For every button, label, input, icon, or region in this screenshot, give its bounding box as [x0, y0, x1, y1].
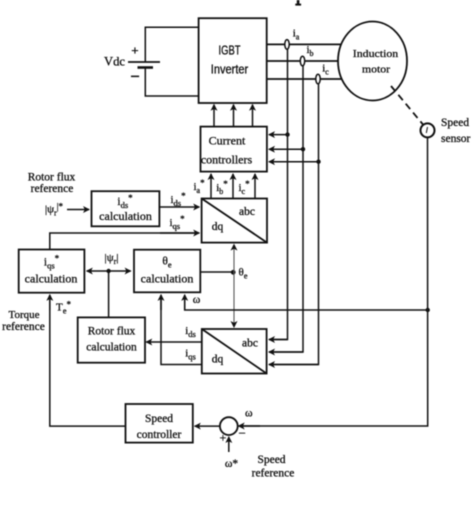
- wire ib to current controllers: [269, 148, 303, 150]
- wire ic feedback vertical: [269, 84, 319, 365]
- summing junction: [220, 417, 246, 444]
- wire theta-e output: [200, 271, 234, 273]
- wire theta-e up to dq-abc: [233, 245, 235, 272]
- wire omega* to summing junction: [228, 437, 230, 452]
- block current controllers: [201, 127, 267, 172]
- node psi-r junction: [106, 269, 110, 273]
- wire torque reference Te* to iqs* calculation: [50, 295, 126, 426]
- svg-text:calculation: calculation: [25, 272, 78, 286]
- wire ic to current controllers: [269, 161, 319, 163]
- svg-text:motor: motor: [362, 64, 390, 76]
- svg-text:controllers: controllers: [201, 153, 253, 167]
- svg-text:Rotor flux: Rotor flux: [88, 326, 136, 338]
- current sensor phase b: [300, 56, 304, 66]
- svg-text:reference: reference: [2, 321, 45, 333]
- svg-text:Speed: Speed: [441, 117, 469, 129]
- wire psi-r from rotor flux calculation: [108, 271, 110, 317]
- svg-text:Rotor flux: Rotor flux: [28, 172, 76, 184]
- wire omega feedback horizontal: [185, 296, 428, 310]
- svg-text:+: +: [220, 431, 227, 445]
- svg-text:calculation: calculation: [99, 209, 152, 223]
- block dq to abc transform upper: [202, 199, 267, 243]
- battery Vdc negative plate: [138, 66, 154, 69]
- svg-text:controller: controller: [137, 429, 182, 441]
- wire ic* reference to controllers: [254, 174, 256, 199]
- svg-text:dq: dq: [212, 221, 224, 233]
- svg-text:ω: ω: [193, 294, 201, 306]
- block IGBT inverter: [199, 18, 267, 103]
- svg-text:Inverter: Inverter: [211, 63, 249, 77]
- wire battery positive to inverter: [145, 27, 198, 61]
- wire ids to rotor flux calculation: [146, 341, 202, 343]
- node theta-e junction: [231, 270, 236, 275]
- svg-text:reference: reference: [252, 468, 295, 480]
- shaft dashed link motor to speed sensor: [391, 86, 423, 125]
- speed sensor: [421, 123, 435, 137]
- current sensor phase a: [285, 40, 289, 50]
- wire gate signal 1 controllers to inverter: [213, 105, 215, 127]
- svg-text:ω*: ω*: [225, 458, 239, 470]
- node junction ib to controllers: [301, 147, 305, 151]
- svg-text:Speed: Speed: [257, 454, 285, 466]
- svg-text:|ψr|: |ψr|: [105, 252, 119, 266]
- svg-text:Vdc: Vdc: [104, 54, 125, 69]
- wire ids* to dq-abc: [159, 206, 199, 208]
- svg-text:−: −: [239, 426, 246, 441]
- wire psi-r ref to ids calculation: [67, 209, 89, 211]
- svg-text:sensor: sensor: [441, 133, 471, 145]
- wire iqs to theta-e calculation: [161, 296, 202, 365]
- svg-text:Induction: Induction: [353, 48, 399, 60]
- wire theta-e down to abc-dq: [233, 272, 235, 327]
- wire speed sensor to summing junction: [240, 138, 428, 427]
- wire phase c inverter to motor: [267, 78, 342, 80]
- wire ib* reference to controllers: [232, 174, 234, 199]
- wire ia* reference to controllers: [210, 174, 212, 199]
- node junction ic to controllers: [316, 160, 320, 164]
- induction motor M: [338, 22, 407, 101]
- block ids* calculation: [92, 191, 160, 226]
- svg-text:+: +: [131, 43, 138, 58]
- svg-text:−: −: [130, 67, 140, 86]
- wire ia to current controllers: [269, 134, 288, 136]
- svg-text:calculation: calculation: [141, 272, 194, 286]
- battery Vdc positive plate: [128, 61, 160, 63]
- wire ia feedback vertical: [269, 49, 288, 340]
- wire battery negative to inverter: [145, 68, 198, 96]
- block abc to dq transform lower: [202, 329, 267, 374]
- svg-text:dq: dq: [212, 354, 224, 366]
- svg-text:calculation: calculation: [86, 342, 137, 354]
- svg-text:Speed: Speed: [145, 413, 173, 425]
- node omega junction: [426, 308, 430, 312]
- current sensor phase c: [316, 74, 320, 84]
- wire phase a inverter to motor: [267, 43, 342, 45]
- wire psi-r to theta-e calculation: [109, 270, 131, 272]
- wire phase b inverter to motor: [267, 60, 339, 62]
- block iqs* calculation: [19, 250, 85, 293]
- svg-text:IGBT: IGBT: [219, 44, 241, 58]
- svg-text:abc: abc: [242, 338, 258, 350]
- wire ib feedback vertical: [269, 66, 303, 353]
- node junction ia to controllers: [285, 132, 289, 136]
- svg-text:abc: abc: [239, 206, 255, 218]
- block theta-e calculation: [134, 250, 200, 293]
- svg-text:Torque: Torque: [9, 309, 40, 321]
- wire gate signal 2 controllers to inverter: [233, 105, 235, 127]
- block rotor flux calculation: [78, 317, 145, 362]
- wire iqs* to dq-abc: [50, 233, 198, 250]
- block speed controller: [126, 404, 193, 443]
- wire gate signal 3 controllers to inverter: [252, 105, 254, 127]
- wire psi-r to iqs* calculation: [87, 270, 109, 272]
- page number fragment "1": [295, 0, 301, 6]
- svg-text:Current: Current: [209, 134, 246, 148]
- wire summing junction to speed controller: [195, 425, 220, 427]
- svg-text:reference: reference: [31, 183, 74, 195]
- svg-text:ω: ω: [245, 408, 253, 420]
